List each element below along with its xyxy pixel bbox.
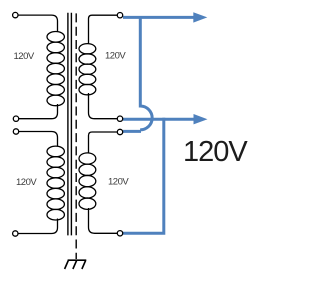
secondary winding S1 coil (79, 44, 96, 95)
wire: primary P1 bottom lead (16, 104, 58, 119)
svg-text:120V: 120V (16, 177, 37, 188)
terminal T5 (S1 top) (117, 13, 122, 18)
primary winding P2 coil (47, 146, 64, 220)
svg-text:120V: 120V (108, 177, 129, 188)
wire: primary P1 top lead (15, 15, 57, 31)
arrowhead line B (194, 114, 208, 124)
terminal T8 (S2 bottom) (117, 231, 122, 236)
ground (chassis) (65, 260, 87, 269)
wire: primary P2 bottom lead (15, 219, 57, 234)
wire: secondary S2 top lead (89, 132, 120, 153)
wire: secondary S1 top lead (89, 15, 120, 43)
blue wire: output line B (middle, to arrow) (123, 118, 194, 121)
svg-text:120V: 120V (14, 51, 35, 62)
blue wire: line B branch down to S2 bottom (123, 118, 164, 234)
wire: secondary S2 bottom lead (89, 208, 120, 233)
transformer core (two lamination lines) (68, 13, 72, 236)
value label 120V (S2) (108, 177, 129, 188)
value label 120V (S1) (105, 51, 126, 62)
terminal T7 (S2 top) (117, 129, 122, 134)
blue wire: line A drop to S2 top (with hop over line B) (123, 16, 152, 131)
svg-text:120V: 120V (183, 136, 248, 168)
terminal T4 (P2 bottom) (13, 231, 18, 236)
primary winding P1 coil (47, 32, 64, 106)
terminal T2 (P1 bottom) (13, 116, 18, 121)
value label 120V (P2) (16, 177, 37, 188)
arrowhead line A (193, 12, 207, 22)
wire: secondary S1 bottom lead (89, 93, 120, 119)
terminal T3 (P2 top) (13, 129, 18, 134)
value label 120V (P1) (14, 51, 35, 62)
secondary winding S2 coil (79, 153, 96, 210)
center dashed line (to ground) (75, 13, 77, 259)
svg-text:120V: 120V (105, 51, 126, 62)
terminal T6 (S1 bottom) (117, 116, 122, 121)
terminal T1 (P1 top) (13, 12, 18, 17)
output voltage label 120V (183, 136, 248, 168)
wire: primary P2 top lead (16, 132, 58, 147)
blue wire: output line A (top, to arrow) (123, 16, 194, 19)
